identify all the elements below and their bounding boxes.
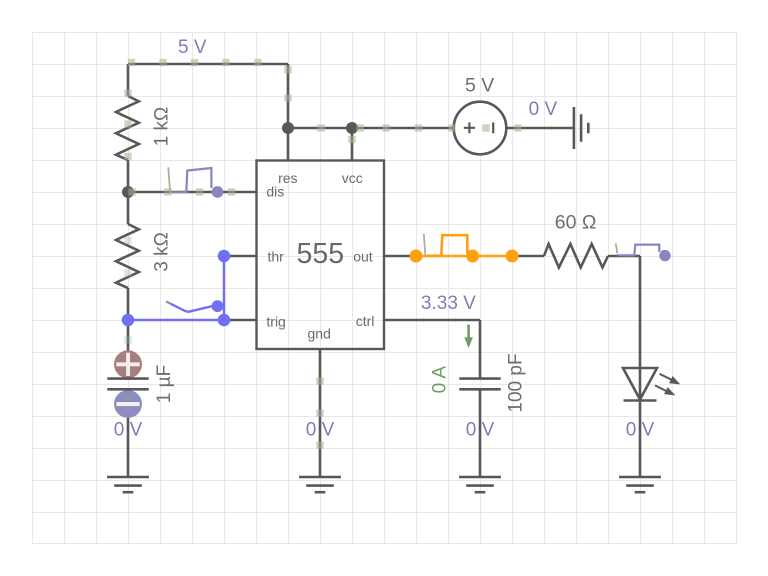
svg-text:0 V: 0 V [626,420,655,441]
svg-text:0 V: 0 V [466,420,495,441]
svg-text:dis: dis [266,184,284,200]
svg-text:0 V: 0 V [114,420,143,441]
svg-text:60 Ω: 60 Ω [555,212,597,234]
svg-text:555: 555 [297,238,345,270]
svg-text:1 µF: 1 µF [154,365,175,403]
svg-text:0 V: 0 V [529,99,558,120]
svg-text:1 kΩ: 1 kΩ [152,107,173,147]
svg-text:out: out [353,248,373,264]
svg-text:thr: thr [268,248,285,264]
svg-text:100 pF: 100 pF [505,353,526,412]
svg-text:0 A: 0 A [429,366,450,394]
svg-text:vcc: vcc [342,170,363,186]
svg-text:5 V: 5 V [178,37,207,58]
svg-text:3.33 V: 3.33 V [421,293,476,314]
svg-text:gnd: gnd [308,326,331,342]
svg-text:ctrl: ctrl [356,313,375,329]
svg-text:3 kΩ: 3 kΩ [152,232,173,272]
svg-text:5 V: 5 V [465,75,494,97]
svg-text:trig: trig [266,313,285,329]
svg-text:0 V: 0 V [306,420,335,441]
